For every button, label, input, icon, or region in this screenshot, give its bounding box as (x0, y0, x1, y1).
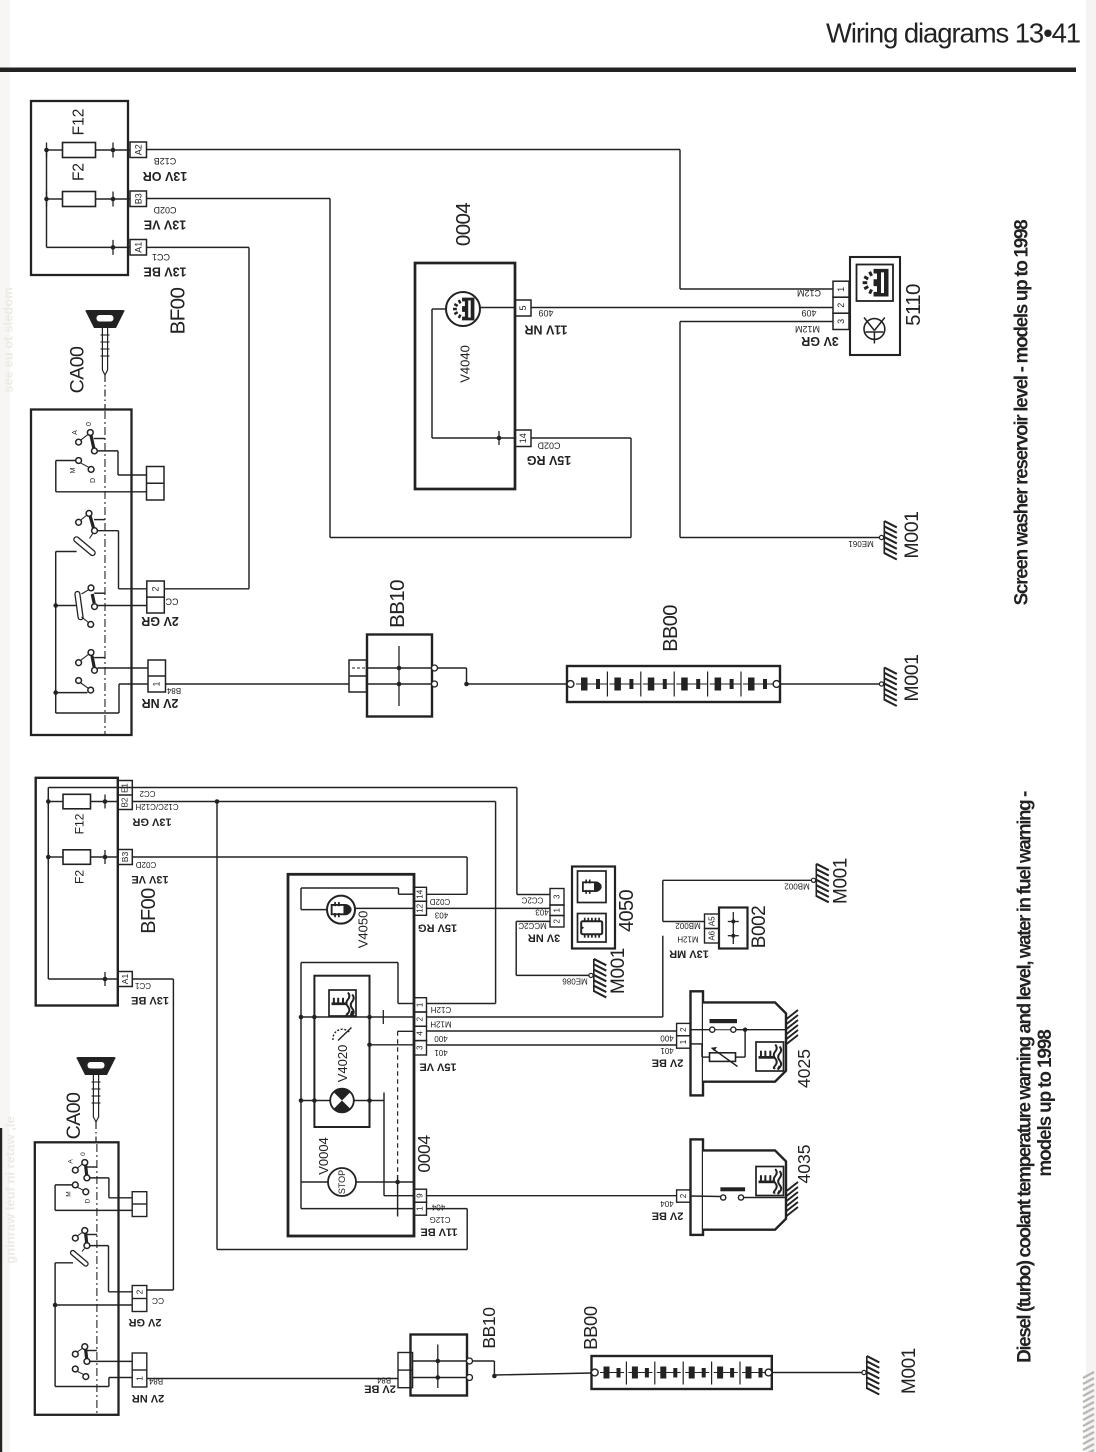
svg-text:4035: 4035 (794, 1145, 814, 1184)
svg-text:3V NR: 3V NR (528, 932, 560, 944)
svg-text:BF00: BF00 (138, 888, 160, 934)
svg-text:MB002: MB002 (784, 882, 810, 891)
svg-text:models up to 1998: models up to 1998 (1035, 1030, 1056, 1177)
svg-text:C02D: C02D (153, 205, 177, 215)
svg-text:B3: B3 (133, 193, 143, 204)
svg-text:2: 2 (553, 918, 562, 923)
svg-text:A: A (67, 1159, 74, 1164)
svg-text:11V BE: 11V BE (420, 1226, 457, 1238)
svg-text:MB002: MB002 (675, 921, 701, 930)
svg-text:A: A (72, 430, 79, 435)
svg-text:see eu ot sledom: see eu ot sledom (1, 287, 16, 392)
svg-text:15V VE: 15V VE (419, 1061, 456, 1073)
svg-text:C12M: C12M (797, 288, 821, 298)
svg-text:CC: CC (165, 597, 178, 607)
svg-text:0004: 0004 (452, 203, 475, 246)
svg-text:13V BE: 13V BE (131, 994, 169, 1006)
svg-text:CA00: CA00 (63, 1092, 85, 1139)
svg-text:2V NR: 2V NR (142, 696, 179, 710)
svg-text:401: 401 (660, 1046, 674, 1055)
svg-text:BB10: BB10 (479, 1307, 499, 1349)
svg-text:404: 404 (431, 1203, 445, 1212)
svg-text:F12: F12 (73, 813, 87, 834)
svg-text:1: 1 (416, 1002, 425, 1007)
svg-text:BF00: BF00 (167, 288, 190, 335)
svg-text:400: 400 (660, 1034, 674, 1043)
svg-text:M001: M001 (901, 654, 923, 701)
svg-text:15V RG: 15V RG (418, 922, 457, 934)
svg-text:Screen washer reservoir level: Screen washer reservoir level - models u… (1012, 220, 1033, 606)
svg-text:CC: CC (152, 1296, 164, 1306)
svg-text:ME061: ME061 (848, 539, 874, 548)
svg-text:B84: B84 (166, 686, 181, 695)
svg-text:Wiring diagrams 13•41: Wiring diagrams 13•41 (826, 17, 1080, 48)
svg-text:1: 1 (836, 287, 846, 292)
svg-text:CC2: CC2 (139, 789, 156, 798)
svg-text:M: M (70, 467, 77, 473)
svg-text:1: 1 (416, 1206, 425, 1211)
svg-text:2V BE: 2V BE (652, 1057, 684, 1069)
svg-text:0: 0 (86, 422, 93, 426)
svg-text:4: 4 (416, 1031, 425, 1036)
svg-text:5: 5 (518, 305, 528, 310)
svg-text:4025: 4025 (794, 1049, 814, 1088)
svg-text:D: D (85, 1198, 92, 1203)
svg-text:1: 1 (135, 1376, 145, 1381)
svg-text:C02D: C02D (136, 860, 157, 869)
svg-text:A6: A6 (707, 930, 716, 940)
svg-text:M001: M001 (899, 1348, 920, 1394)
svg-text:F2: F2 (73, 870, 87, 884)
svg-text:A2: A2 (133, 144, 143, 155)
svg-text:3: 3 (836, 319, 846, 324)
svg-text:C12H: C12H (431, 1005, 452, 1014)
svg-text:C02D: C02D (430, 897, 451, 906)
svg-text:12: 12 (416, 903, 425, 912)
svg-text:13V VE: 13V VE (144, 218, 186, 232)
svg-text:F2: F2 (71, 163, 88, 181)
svg-text:401: 401 (434, 1048, 448, 1057)
svg-text:B3: B3 (120, 852, 130, 863)
svg-text:Diesel (turbo) coolant tempera: Diesel (turbo) coolant temperature warni… (1015, 791, 1036, 1363)
svg-text:2V BE: 2V BE (652, 1210, 684, 1222)
svg-text:BB00: BB00 (580, 1306, 601, 1350)
svg-text:13V BE: 13V BE (143, 265, 186, 279)
svg-text:B002: B002 (749, 906, 770, 948)
svg-text:2: 2 (836, 303, 846, 308)
svg-text:2: 2 (151, 586, 161, 591)
svg-text:A1: A1 (120, 974, 130, 985)
svg-text:C12B: C12B (154, 156, 177, 166)
svg-text:M12H: M12H (677, 935, 699, 944)
svg-text:V4050: V4050 (356, 911, 371, 949)
svg-text:A1: A1 (133, 242, 143, 253)
svg-text:CC2C: CC2C (521, 896, 543, 905)
svg-text:gninraw leuf ni retaw ,le: gninraw leuf ni retaw ,le (3, 1116, 18, 1263)
svg-text:M001: M001 (608, 948, 629, 994)
svg-text:2V GR: 2V GR (141, 614, 179, 628)
svg-text:13V VE: 13V VE (131, 873, 168, 885)
svg-text:0004: 0004 (414, 1135, 434, 1173)
svg-text:5110: 5110 (902, 284, 925, 326)
svg-text:2: 2 (679, 1193, 688, 1198)
svg-text:11V NR: 11V NR (524, 323, 567, 337)
svg-text:4050: 4050 (616, 889, 638, 932)
svg-text:2: 2 (416, 1016, 425, 1021)
svg-text:M12M: M12M (795, 324, 820, 334)
svg-text:C12G: C12G (430, 1215, 451, 1224)
svg-text:MCC2C: MCC2C (518, 921, 547, 930)
svg-text:13V GR: 13V GR (132, 816, 171, 828)
svg-text:V4020: V4020 (335, 1045, 350, 1083)
svg-text:2V NR: 2V NR (132, 1392, 164, 1404)
svg-text:M: M (65, 1191, 72, 1196)
svg-text:D: D (90, 478, 97, 483)
svg-text:3V GR: 3V GR (801, 334, 839, 348)
svg-text:400: 400 (434, 1034, 448, 1043)
svg-text:2V GR: 2V GR (128, 1316, 161, 1328)
svg-text:2: 2 (679, 1027, 688, 1032)
svg-text:A5: A5 (707, 916, 716, 926)
svg-text:M12H: M12H (430, 1020, 452, 1029)
svg-text:3: 3 (553, 894, 562, 899)
svg-text:409: 409 (801, 308, 816, 318)
svg-text:1: 1 (553, 907, 562, 912)
svg-text:CC1: CC1 (134, 981, 151, 990)
svg-text:BB00: BB00 (660, 605, 682, 652)
svg-text:CA00: CA00 (67, 346, 89, 393)
svg-text:F12: F12 (71, 109, 88, 136)
svg-text:BB10: BB10 (386, 580, 409, 628)
svg-text:404: 404 (660, 1199, 674, 1208)
svg-text:0: 0 (80, 1152, 87, 1156)
svg-text:ME086: ME086 (562, 977, 588, 986)
svg-text:2V BE: 2V BE (364, 1383, 396, 1395)
svg-text:14: 14 (416, 889, 425, 898)
svg-text:14: 14 (518, 433, 528, 443)
svg-text:15V RG: 15V RG (527, 453, 571, 467)
svg-text:3: 3 (416, 1045, 425, 1050)
svg-text:13V OR: 13V OR (143, 169, 187, 183)
svg-text:2: 2 (135, 1289, 145, 1294)
svg-text:1: 1 (679, 1039, 688, 1044)
svg-text:1: 1 (152, 681, 162, 686)
svg-text:9: 9 (416, 1193, 425, 1198)
svg-text:C12C/C12H: C12C/C12H (135, 802, 178, 811)
svg-text:V4040: V4040 (458, 345, 473, 383)
svg-text:V0004: V0004 (316, 1137, 331, 1175)
svg-text:409: 409 (538, 308, 553, 318)
svg-text:M001: M001 (831, 858, 852, 904)
svg-text:M001: M001 (901, 511, 923, 558)
svg-text:13V MR: 13V MR (669, 948, 709, 960)
svg-text:403: 403 (434, 911, 448, 920)
svg-text:C02D: C02D (537, 441, 561, 451)
svg-text:STOP: STOP (337, 1170, 347, 1194)
svg-text:CC1: CC1 (152, 252, 170, 262)
svg-text:B2: B2 (121, 797, 130, 807)
